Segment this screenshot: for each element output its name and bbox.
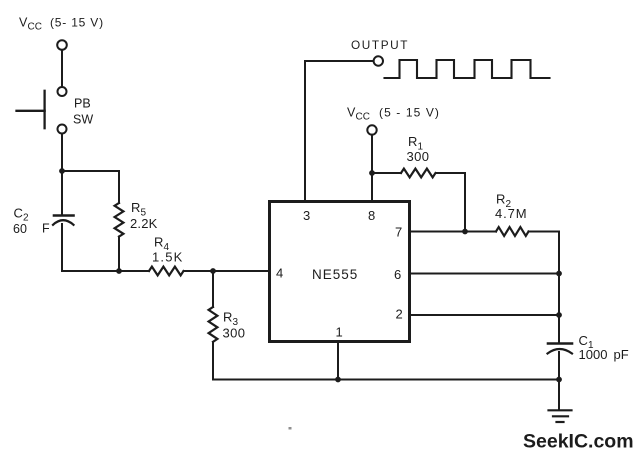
wire pin 8 <box>371 135 373 201</box>
node C junction <box>210 268 216 274</box>
svg-text:6: 6 <box>394 267 401 282</box>
label R3 value <box>223 310 246 341</box>
wire <box>62 224 119 271</box>
node A junction <box>59 168 65 174</box>
resistor R3 <box>209 307 218 342</box>
wire <box>62 171 119 203</box>
label R4 value <box>152 235 184 265</box>
pushbutton switch PB SW <box>17 87 67 134</box>
label Vcc (5 - 15 V) middle <box>347 106 440 123</box>
svg-text:300: 300 <box>407 149 430 164</box>
svg-text:R: R <box>154 235 163 250</box>
svg-text:CC: CC <box>356 112 370 123</box>
node OUTPUT terminal <box>374 56 383 65</box>
wire <box>213 342 559 380</box>
svg-text:2: 2 <box>396 307 403 322</box>
capacitor C1 <box>548 344 573 354</box>
svg-text:1: 1 <box>336 325 343 340</box>
resistor R4 <box>149 267 184 276</box>
wire <box>61 171 63 216</box>
svg-text:7: 7 <box>395 225 402 240</box>
wire <box>184 270 214 272</box>
wire <box>212 271 214 307</box>
node F junction <box>556 271 562 277</box>
svg-text:300: 300 <box>223 326 246 341</box>
wire pin 1 <box>337 342 339 380</box>
svg-text:4: 4 <box>276 266 283 281</box>
node H junction <box>556 377 562 383</box>
svg-text:SeekIC.com: SeekIC.com <box>523 431 634 453</box>
wire pin 7 <box>410 231 497 233</box>
svg-text:NE555: NE555 <box>312 267 358 282</box>
label R1 value <box>407 134 430 164</box>
node I junction pin1 <box>335 377 341 383</box>
label PB SW <box>73 97 93 127</box>
resistor R1 <box>401 169 436 178</box>
node E junction <box>462 229 468 235</box>
ground <box>549 410 572 422</box>
svg-text:4.7M: 4.7M <box>495 206 528 221</box>
capacitor C2 <box>53 216 74 225</box>
svg-text:8: 8 <box>368 208 375 223</box>
wire <box>61 50 63 87</box>
svg-text:R: R <box>408 134 417 149</box>
wire <box>558 380 560 410</box>
square wave output waveform <box>385 60 550 78</box>
resistor R2 <box>496 227 529 236</box>
svg-text:1000: 1000 <box>579 347 608 362</box>
wire <box>118 237 120 272</box>
node Vcc terminal (middle) <box>367 125 376 134</box>
svg-text:R: R <box>223 310 232 325</box>
label R2 value <box>495 192 528 222</box>
svg-text:PB: PB <box>74 97 91 111</box>
svg-text:C: C <box>579 333 588 348</box>
svg-text:60: 60 <box>13 222 27 236</box>
node Vcc terminal (top-left) <box>57 40 67 50</box>
wire <box>529 232 560 344</box>
svg-text:2.2K: 2.2K <box>130 216 158 231</box>
svg-text:SW: SW <box>73 113 93 127</box>
svg-text:(5- 15 V): (5- 15 V) <box>50 16 104 30</box>
svg-text:R: R <box>131 200 140 215</box>
svg-text:C: C <box>14 206 23 221</box>
label Vcc (5-15 V) top-left <box>19 16 104 33</box>
wire pin 2 <box>410 314 560 316</box>
node speck (scan artifact) <box>289 427 292 430</box>
svg-text:1.5K: 1.5K <box>152 250 184 265</box>
svg-text:pF: pF <box>614 347 629 362</box>
label C1 value <box>579 333 629 362</box>
svg-text:3: 3 <box>303 208 310 223</box>
wire <box>213 270 269 272</box>
wire <box>558 352 560 380</box>
wire <box>372 172 401 174</box>
wire <box>61 134 63 172</box>
wire <box>119 270 149 272</box>
node B junction <box>116 268 122 274</box>
node D junction <box>369 170 375 176</box>
wire pin 3 <box>305 61 374 201</box>
svg-text:R: R <box>496 192 505 207</box>
svg-text:CC: CC <box>28 22 42 33</box>
label R5 value <box>130 200 158 231</box>
label C2 value <box>13 206 50 237</box>
svg-text:OUTPUT: OUTPUT <box>351 38 409 52</box>
svg-text:(5 - 15 V): (5 - 15 V) <box>379 106 440 120</box>
resistor R5 <box>115 203 124 237</box>
wire <box>436 173 465 232</box>
svg-text:F: F <box>42 222 50 236</box>
wire pin 6 <box>410 273 560 275</box>
IC U1 NE555 <box>270 202 410 342</box>
node G junction <box>556 312 562 318</box>
